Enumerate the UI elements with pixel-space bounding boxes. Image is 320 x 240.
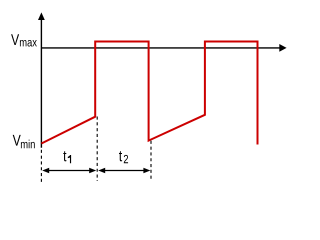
dashed guide at end of t1 (96, 117, 98, 182)
t2 left arrowhead (98, 168, 105, 173)
x-axis line at Vmax level (41, 47, 280, 49)
waveform red trace (41, 42, 257, 145)
dashed guide below y-axis (40, 150, 42, 182)
x-axis arrowhead (279, 44, 286, 52)
y-axis (40, 19, 42, 148)
t2 right arrowhead (143, 168, 150, 173)
t1 left arrowhead (42, 168, 49, 173)
t1 right arrowhead (89, 168, 96, 173)
label Vmin (13, 135, 35, 148)
label t2 (119, 151, 128, 163)
label t1 (63, 151, 71, 163)
label Vmax (11, 34, 37, 46)
t2 dimension line (102, 170, 146, 172)
y-axis arrowhead (38, 12, 45, 20)
dashed guide at end of t2 (150, 141, 152, 181)
t1 dimension line (46, 170, 92, 172)
